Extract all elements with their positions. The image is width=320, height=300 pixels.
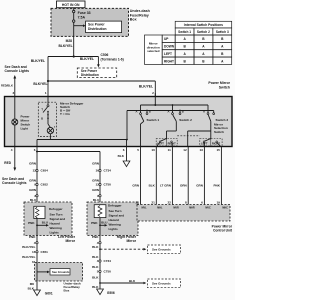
left mirror connector pin 4 — [22, 241, 38, 249]
left mirror connector pin 3 — [34, 194, 38, 198]
wire BLK (pin 6 to body ground) — [118, 147, 130, 167]
wire RED (pin 4 to dash and console lights) — [2, 147, 27, 186]
svg-text:C734: C734 — [104, 259, 112, 263]
svg-text:6: 6 — [34, 148, 36, 152]
svg-text:6: 6 — [201, 200, 203, 204]
svg-text:DOWN: DOWN — [164, 45, 175, 49]
svg-text:GRN: GRN — [29, 162, 37, 166]
connector C652 pin 9 — [34, 183, 48, 187]
svg-text:16: 16 — [32, 250, 36, 254]
under-dash fuse/relay box — [51, 8, 150, 36]
svg-text:See Grounds: See Grounds — [152, 248, 171, 252]
svg-text:Mirror: Mirror — [126, 239, 136, 243]
right power mirror box — [87, 202, 138, 236]
svg-text:PNK: PNK — [214, 183, 221, 187]
wire GRN label (C734 to C750) — [92, 179, 100, 183]
wire BLK (switch pin 10 to control unit pin 21) — [155, 146, 157, 204]
svg-text:C654: C654 — [41, 169, 49, 173]
svg-text:BLU: BLU — [101, 221, 107, 225]
svg-text:Switch 2: Switch 2 — [179, 118, 192, 122]
svg-text:C750: C750 — [104, 183, 112, 187]
svg-text:T = On: T = On — [60, 112, 70, 116]
wire GRN label (C654 to C652) — [29, 179, 37, 183]
svg-text:C652: C652 — [41, 183, 49, 187]
svg-text:See Grounds: See Grounds — [52, 270, 70, 274]
svg-text:Switch 1: Switch 1 — [178, 30, 191, 34]
svg-text:Switch 3: Switch 3 — [216, 118, 229, 122]
svg-text:Control Unit: Control Unit — [213, 228, 233, 232]
power mirror control unit — [137, 205, 233, 233]
wire GRN label (C750 to right mirror) — [92, 188, 100, 192]
svg-text:B: B — [182, 110, 184, 114]
power mirror switch label — [208, 81, 230, 89]
svg-text:BLK: BLK — [92, 276, 99, 280]
wire LT GRN (switch pin 11 to control unit pin 22) — [171, 146, 173, 204]
right mirror connector pin 8 — [97, 194, 101, 198]
svg-text:Switch 1: Switch 1 — [147, 118, 160, 122]
under-dash fuse/relay box (ground) — [35, 263, 83, 293]
defogger sw output wire + split — [36, 146, 100, 202]
svg-text:BLU: BLU — [42, 221, 48, 225]
power mirror switch box — [5, 97, 233, 147]
hot in on label box — [57, 1, 86, 8]
svg-text:B: B — [41, 117, 43, 121]
svg-text:Fuse 33: Fuse 33 — [78, 11, 91, 15]
wire GRN label (C652 to left mirror) — [29, 188, 37, 192]
wire BLK (right mirror pin 4 to ground G506) — [92, 235, 100, 289]
svg-text:Console Lights: Console Lights — [5, 69, 30, 73]
svg-text:Signal and: Signal and — [109, 214, 125, 218]
wire GRN label (switch to C734) — [92, 162, 100, 166]
ground rail — [126, 110, 214, 147]
wire GRN (switch pin 5 to control unit pin 20) — [140, 146, 142, 204]
connector C506 (terminals 1-6) to power distribution — [77, 53, 123, 77]
selector feed wires — [167, 131, 211, 146]
wire BLU label (into right mirror) — [93, 198, 100, 202]
connector C734 pin 16 — [96, 169, 112, 173]
left defogger element — [28, 206, 49, 235]
control unit terminal numbers — [136, 200, 221, 204]
svg-text:HOT IN ON: HOT IN ON — [62, 3, 80, 7]
svg-text:PNK: PNK — [91, 221, 98, 225]
svg-text:12: 12 — [183, 148, 187, 152]
svg-text:4: 4 — [11, 148, 13, 152]
ground G506 — [97, 289, 115, 295]
svg-text:C651: C651 — [41, 250, 49, 254]
svg-text:19: 19 — [216, 200, 220, 204]
svg-text:Hazard: Hazard — [50, 221, 60, 225]
svg-text:BLU: BLU — [93, 198, 100, 202]
svg-text:2: 2 — [152, 91, 154, 95]
svg-text:Defogger: Defogger — [49, 207, 63, 211]
svg-text:4: 4 — [97, 259, 99, 263]
wire PNK (switch pin 15 to control unit pin 19) — [220, 146, 222, 204]
svg-text:See Turn: See Turn — [50, 212, 63, 216]
svg-text:B: B — [149, 110, 151, 114]
svg-text:BLK: BLK — [92, 245, 99, 249]
svg-text:GRN: GRN — [196, 183, 203, 187]
wire BLU label (into left mirror) — [30, 198, 37, 202]
mechanical link dashed — [177, 135, 200, 137]
svg-text:See Turn: See Turn — [109, 209, 122, 213]
svg-text:A: A — [203, 110, 205, 114]
wire GRN label (switch 6 to C654) — [29, 162, 37, 166]
switch 1 (up/down pole A/B) — [135, 105, 159, 146]
svg-text:MHC: MHC — [222, 207, 228, 210]
svg-text:LEFT: LEFT — [164, 52, 172, 56]
svg-text:A: A — [135, 110, 137, 114]
svg-text:A: A — [167, 110, 169, 114]
svg-text:Light: Light — [21, 127, 28, 131]
svg-text:PNK: PNK — [92, 235, 99, 239]
svg-text:BLK: BLK — [92, 285, 99, 289]
ground G601 — [28, 281, 53, 296]
svg-text:15: 15 — [216, 148, 220, 152]
svg-text:M28: M28 — [66, 39, 73, 43]
svg-text:Distribution: Distribution — [88, 27, 107, 31]
wire colors to control unit — [132, 183, 220, 187]
svg-text:RED/BLK: RED/BLK — [1, 84, 13, 88]
svg-text:Signal and: Signal and — [50, 217, 66, 221]
svg-text:5: 5 — [137, 148, 139, 152]
svg-text:Hazard: Hazard — [109, 218, 119, 222]
fuse box cavity 61 — [32, 260, 36, 264]
svg-text:See Grounds: See Grounds — [152, 282, 171, 286]
terminal numbers top edge — [12, 91, 154, 95]
dash lights feed arrow (top left) — [1, 65, 29, 96]
svg-text:MVR: MVR — [173, 207, 179, 210]
branch wire to terminal 2 — [48, 81, 155, 97]
svg-text:Warning: Warning — [50, 226, 62, 230]
svg-text:5: 5 — [97, 270, 99, 274]
wire from fuse box to junction, cavity M28, BLK/YEL — [58, 36, 74, 57]
svg-text:PNK: PNK — [29, 235, 36, 239]
svg-text:Box: Box — [130, 18, 137, 22]
wire ORN (switch pin 12 to control unit pin 8) — [187, 146, 189, 204]
svg-text:Console Lights: Console Lights — [2, 181, 27, 185]
svg-text:GRN: GRN — [92, 162, 100, 166]
svg-text:6: 6 — [123, 148, 125, 152]
mirror selection switch LEFT/RIGHT contacts (pole 1) — [156, 139, 177, 146]
fuse 33 (7.5A) — [73, 8, 91, 23]
svg-text:Mirror: Mirror — [65, 239, 75, 243]
svg-text:Defogger: Defogger — [108, 204, 122, 208]
svg-text:8: 8 — [185, 200, 187, 204]
wire horizontal split at y56.5 — [48, 56, 98, 58]
svg-text:BLK: BLK — [129, 279, 136, 283]
svg-text:GRN: GRN — [132, 183, 139, 187]
svg-text:BLK/YEL: BLK/YEL — [139, 85, 153, 89]
left power mirror box — [24, 202, 72, 236]
svg-text:20: 20 — [136, 200, 140, 204]
connector C750 pin 5 — [92, 270, 111, 280]
svg-text:Switch: Switch — [214, 130, 224, 134]
svg-text:(Terminals 1-6): (Terminals 1-6) — [101, 57, 124, 61]
main feed wire down to switch, BLK/YEL — [31, 57, 49, 97]
svg-text:Distribution: Distribution — [81, 73, 99, 77]
svg-text:MHR: MHR — [189, 207, 195, 210]
see grounds reference (dashed branch) — [100, 245, 181, 254]
right defogger element — [91, 205, 107, 236]
internal switch positions table — [145, 21, 232, 64]
svg-text:10: 10 — [151, 148, 155, 152]
svg-text:LT GRN: LT GRN — [160, 183, 171, 187]
svg-text:Switch 3: Switch 3 — [216, 30, 229, 34]
svg-text:BLK/YEL: BLK/YEL — [58, 44, 72, 48]
wire (left mirror pin 4 to fuse box cavity 61) — [29, 235, 37, 263]
power rail from terminal 2 — [141, 93, 209, 106]
svg-text:Switch 2: Switch 2 — [197, 30, 210, 34]
svg-text:GRN: GRN — [29, 188, 37, 192]
svg-text:selected: selected — [147, 49, 159, 53]
svg-text:22: 22 — [167, 200, 171, 204]
svg-text:MHL: MHL — [157, 207, 163, 210]
svg-text:11: 11 — [168, 148, 172, 152]
svg-text:21: 21 — [151, 200, 155, 204]
svg-text:1: 1 — [45, 91, 47, 95]
svg-text:BLK/YEL: BLK/YEL — [31, 59, 45, 63]
svg-text:C750: C750 — [104, 270, 112, 274]
svg-text:Lights: Lights — [50, 230, 60, 234]
svg-text:BLK/YEL: BLK/YEL — [33, 82, 47, 86]
see grounds reference (BLK branch) — [100, 279, 181, 288]
svg-text:PNK: PNK — [28, 221, 35, 225]
right mirror connector pin 4 — [92, 241, 101, 249]
connector C654 pin 12 — [33, 169, 49, 173]
svg-text:7.5A: 7.5A — [78, 15, 86, 19]
connector C734 pin 4 — [92, 259, 111, 269]
right power mirror label — [117, 235, 137, 243]
see power distribution reference (in fuse box) — [74, 21, 122, 36]
terminal numbers bottom edge — [11, 148, 220, 152]
svg-text:Internal Switch Positions: Internal Switch Positions — [184, 23, 223, 27]
svg-text:BLK/YEL: BLK/YEL — [22, 255, 35, 259]
wire GRN (switch pin 13 to control unit pin 6) — [203, 146, 205, 204]
svg-text:13: 13 — [199, 148, 203, 152]
switch 2 (pole A/B) — [167, 105, 192, 131]
svg-text:BLU: BLU — [30, 198, 37, 202]
svg-text:BLK/YEL: BLK/YEL — [22, 245, 35, 249]
svg-text:Box: Box — [64, 288, 70, 292]
svg-text:Lights: Lights — [109, 227, 119, 231]
svg-text:ORN: ORN — [180, 183, 187, 187]
connector C651 pin 16 — [22, 250, 48, 259]
junction (solid ground branch) — [92, 282, 101, 289]
svg-text:BLK: BLK — [118, 154, 125, 158]
svg-text:Switch: Switch — [219, 85, 230, 89]
svg-text:RED: RED — [4, 161, 11, 165]
svg-text:BLK/YEL: BLK/YEL — [80, 57, 94, 61]
switch illumination lamp — [12, 97, 31, 147]
svg-text:MVL: MVL — [142, 207, 148, 210]
svg-text:GRN: GRN — [92, 188, 100, 192]
connector C750 pin 12 — [96, 183, 112, 187]
mirror defogger switch (dashed) — [37, 97, 127, 147]
svg-text:BLK: BLK — [92, 265, 99, 269]
svg-text:Warning: Warning — [109, 223, 121, 227]
svg-text:3: 3 — [12, 91, 14, 95]
svg-text:G601: G601 — [45, 292, 53, 296]
svg-text:RIGHT: RIGHT — [164, 59, 174, 63]
switch 3 / mirror selection switch — [203, 105, 228, 134]
svg-text:G506: G506 — [107, 291, 115, 295]
mirror selection switch LEFT/RIGHT contacts (pole 2) — [200, 139, 222, 146]
svg-text:C734: C734 — [104, 169, 112, 173]
left power mirror label — [58, 235, 76, 243]
svg-text:BLK: BLK — [149, 183, 156, 187]
junction (dashed ground branch) — [92, 248, 101, 259]
svg-text:MVC: MVC — [205, 207, 211, 210]
